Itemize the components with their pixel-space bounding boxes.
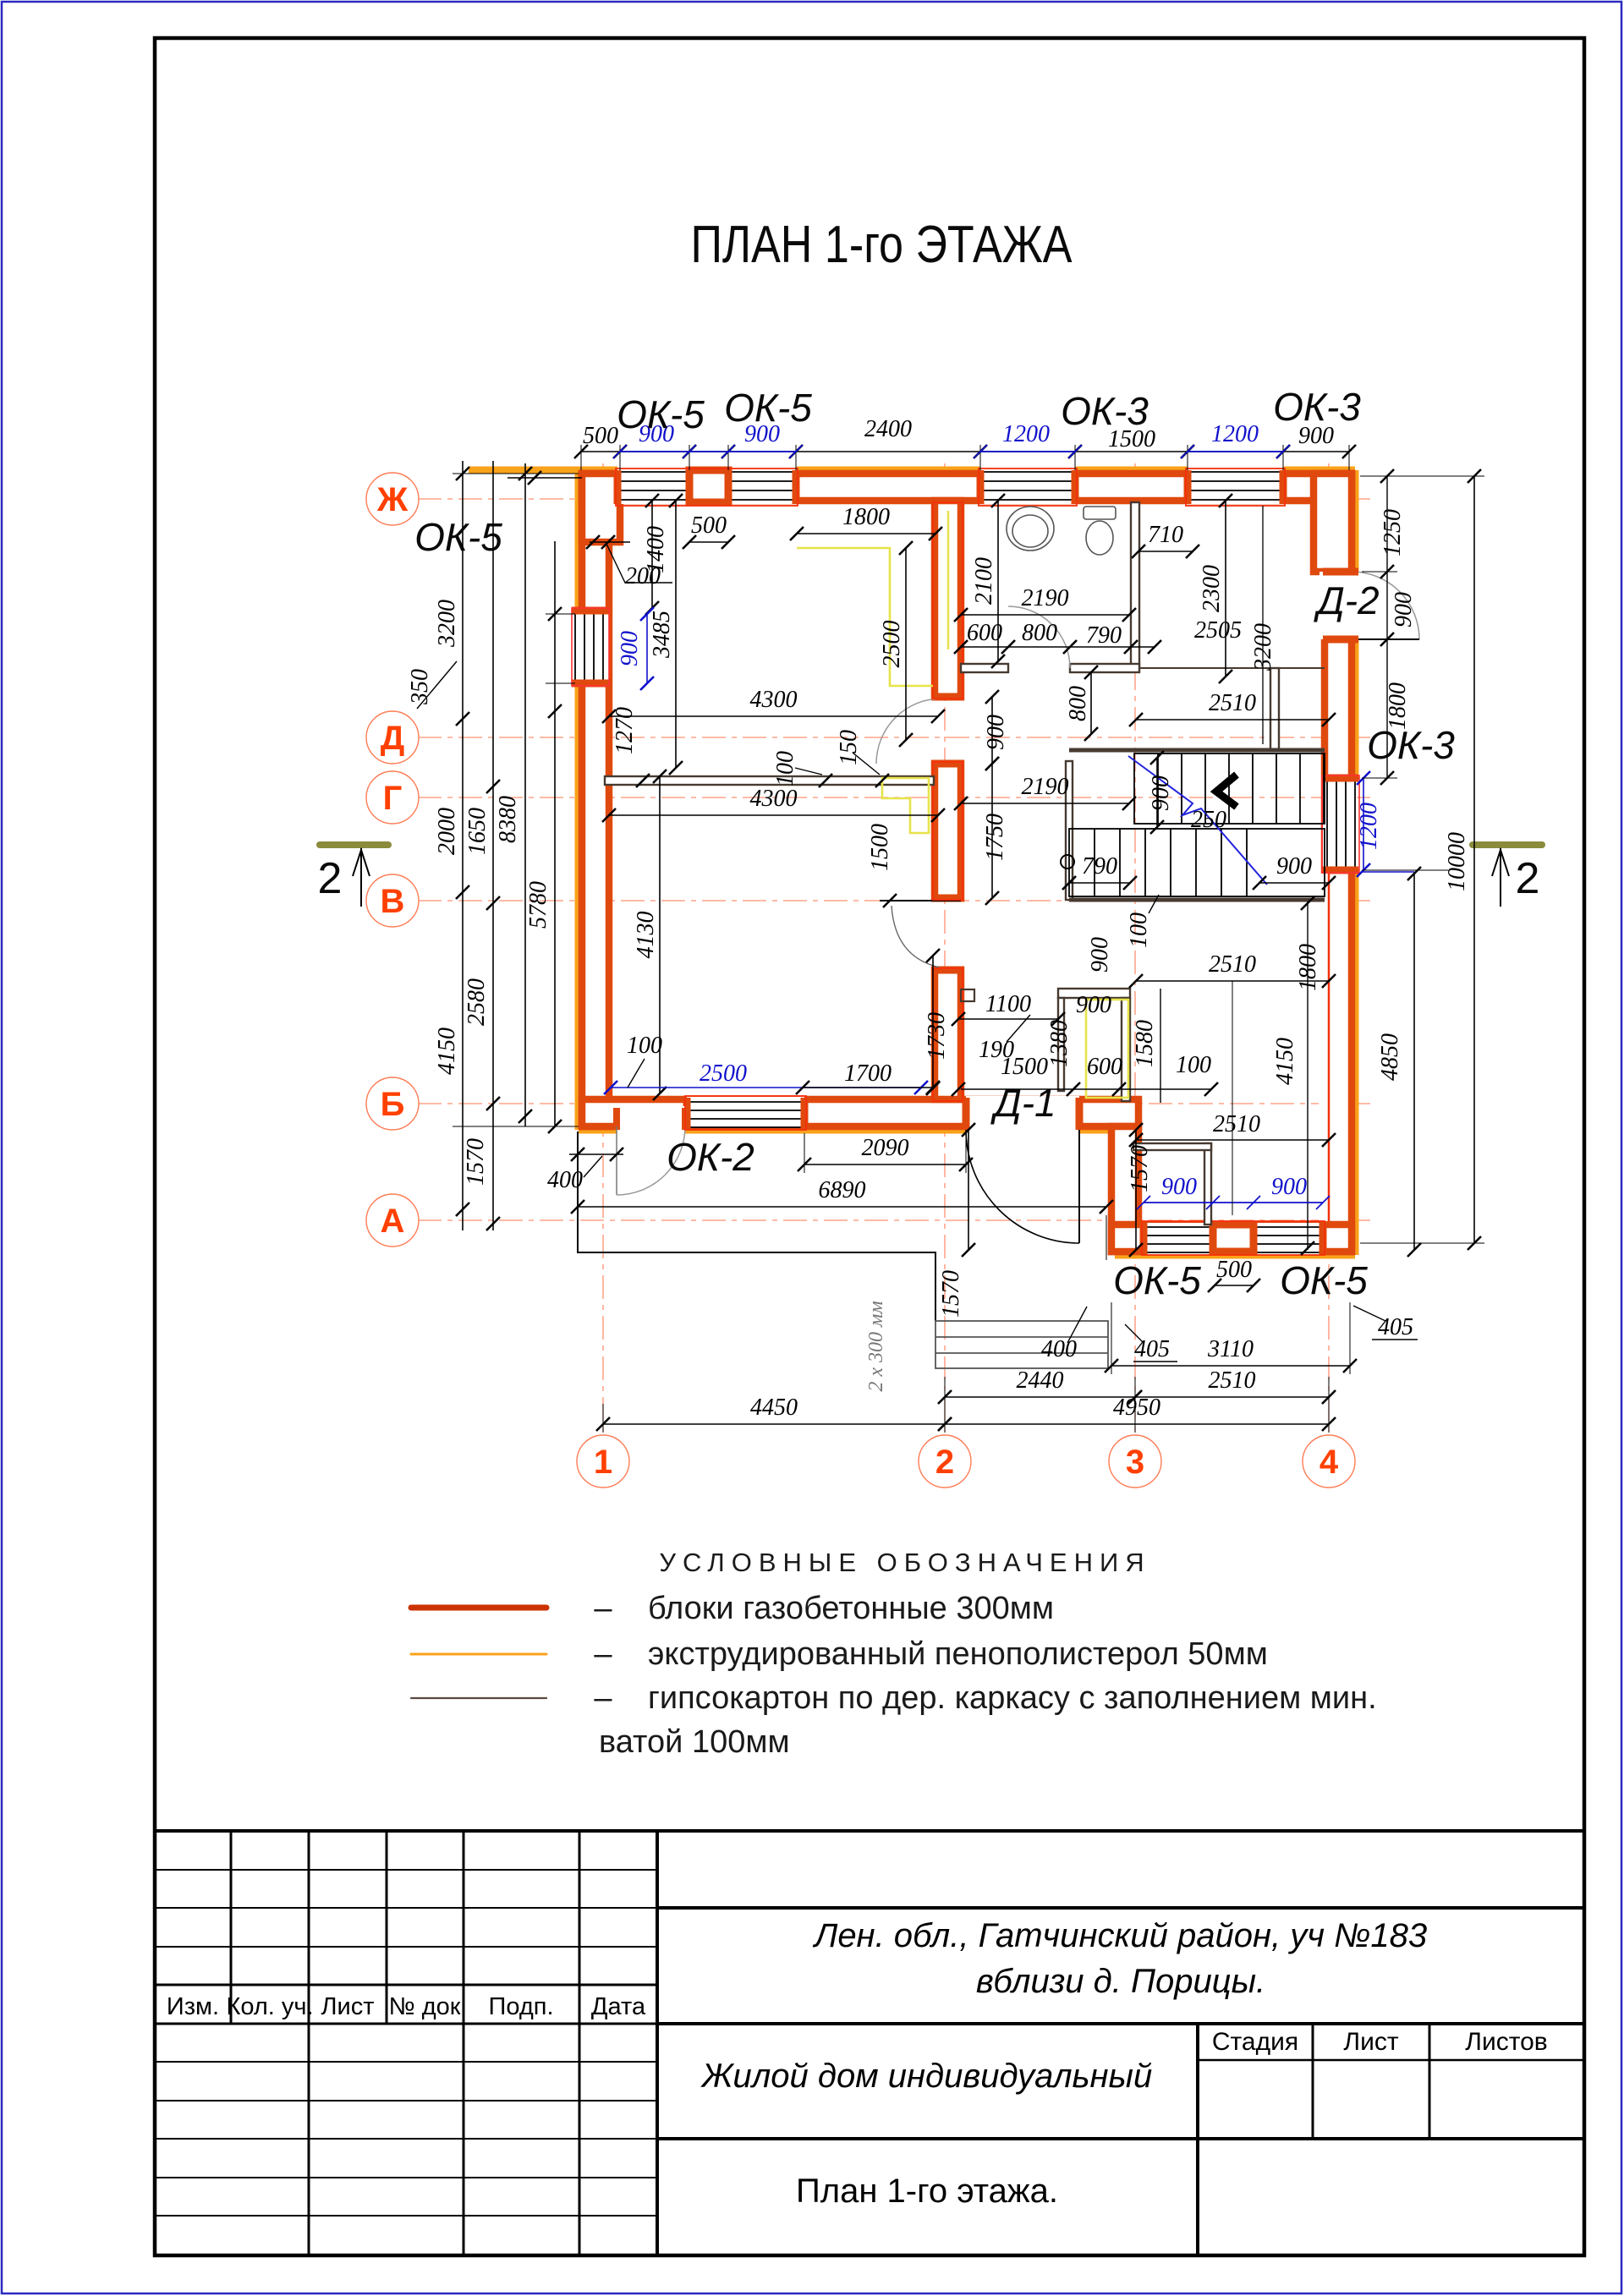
top dimension chain	[581, 451, 1349, 452]
door D-1 opening bottom wall	[966, 1096, 1079, 1135]
partition heater closet right wall	[1122, 998, 1130, 1101]
svg-text:900: 900	[1087, 937, 1113, 973]
svg-text:800: 800	[1022, 620, 1057, 646]
insulation right	[1352, 869, 1359, 1255]
legend line polystyrene	[411, 1653, 546, 1656]
entrance door opening bottom-left	[617, 1106, 685, 1135]
svg-text:–: –	[594, 1591, 612, 1626]
dimension 500	[683, 535, 735, 549]
wall corner pier NW	[582, 474, 620, 542]
svg-text:1800: 1800	[842, 504, 890, 530]
insulation right	[1352, 638, 1359, 780]
dimension 710	[1132, 545, 1199, 558]
stair arrow chevron	[1216, 775, 1237, 807]
svg-text:ОК-2: ОК-2	[667, 1135, 754, 1179]
dimension 790	[1062, 876, 1137, 890]
handrail start marker	[1061, 855, 1074, 869]
axis bubble 2	[919, 1435, 971, 1488]
svg-text:500: 500	[583, 423, 618, 449]
svg-text:блоки газобетонные 300мм: блоки газобетонные 300мм	[648, 1591, 1054, 1626]
wall exterior top (axis Ж)	[582, 474, 1352, 501]
svg-text:2090: 2090	[862, 1135, 909, 1161]
svg-text:2190: 2190	[1022, 585, 1069, 611]
405 leader2	[1353, 1306, 1418, 1340]
lower room door arc	[892, 906, 940, 967]
dimension 1700	[796, 1081, 940, 1094]
svg-text:2510: 2510	[1213, 1111, 1260, 1137]
svg-text:710: 710	[1148, 522, 1183, 548]
wall interior wall lower segment	[935, 970, 961, 1099]
svg-text:500: 500	[1216, 1257, 1252, 1283]
svg-text:В: В	[381, 883, 405, 920]
svg-text:УСЛОВНЫЕ ОБОЗНАЧЕНИЯ: УСЛОВНЫЕ ОБОЗНАЧЕНИЯ	[659, 1548, 1150, 1577]
svg-text:2: 2	[318, 854, 343, 903]
svg-text:4130: 4130	[633, 912, 659, 959]
svg-text:3200: 3200	[434, 600, 460, 648]
svg-text:4850: 4850	[1377, 1033, 1403, 1081]
insulation contour room NW	[797, 548, 933, 686]
400 leader	[584, 1156, 602, 1177]
svg-text:1250: 1250	[1380, 509, 1406, 556]
dimension 2440	[938, 1390, 1142, 1404]
svg-text:–: –	[594, 1636, 612, 1672]
svg-text:1750: 1750	[982, 814, 1008, 861]
axis line Б	[418, 1103, 1370, 1104]
svg-text:План 1-го этажа.: План 1-го этажа.	[796, 2173, 1058, 2210]
svg-text:1200: 1200	[1356, 803, 1382, 850]
svg-text:Д-2: Д-2	[1313, 578, 1379, 622]
window OK-3 top right	[1188, 463, 1283, 504]
svg-text:2300: 2300	[1199, 565, 1225, 612]
landing edge	[1139, 667, 1325, 669]
axis line 1	[602, 463, 604, 1433]
svg-text:1200: 1200	[1002, 421, 1050, 447]
pier between OK-5 windows	[689, 470, 728, 502]
wall exterior left (axis 1)	[582, 474, 609, 1126]
wall exterior bottom step (axis 3)	[1111, 1126, 1138, 1252]
left corner ext line	[507, 477, 582, 479]
axis line Д	[418, 737, 1370, 738]
svg-text:Лист: Лист	[1343, 2028, 1398, 2056]
svg-text:1650: 1650	[464, 808, 491, 855]
partition boiler room wall vertical	[1204, 1143, 1211, 1225]
insulation right	[1352, 470, 1359, 573]
window OK-3 top left	[980, 463, 1075, 504]
dim line 1580	[1160, 989, 1161, 1103]
entrance door arc	[617, 1126, 685, 1195]
svg-text:900: 900	[1276, 853, 1312, 879]
svg-text:2510: 2510	[1209, 951, 1256, 978]
window zone OK-5 top (two windows + pier)	[617, 463, 796, 504]
svg-text:1380: 1380	[1046, 1020, 1073, 1067]
dimension 10000	[1468, 469, 1481, 1250]
svg-text:2500: 2500	[700, 1060, 747, 1087]
svg-text:2400: 2400	[864, 416, 912, 442]
svg-text:500: 500	[691, 512, 727, 539]
top dimension chain extension lines	[581, 445, 1349, 470]
svg-text:ОК-3: ОК-3	[1273, 385, 1361, 429]
svg-text:100: 100	[772, 751, 798, 786]
interior wall door jambs	[931, 697, 964, 970]
svg-text:8380: 8380	[495, 796, 521, 843]
line under stairs to wall	[880, 900, 961, 901]
dimension 2500	[899, 541, 913, 747]
partition stair left wall	[1066, 761, 1073, 900]
svg-text:2190: 2190	[1022, 774, 1069, 800]
svg-text:600: 600	[1087, 1054, 1122, 1080]
svg-text:Стадия: Стадия	[1212, 2028, 1298, 2056]
porch right wall inner face	[1319, 874, 1330, 1221]
dimension 1750	[985, 757, 999, 905]
svg-text:ОК-5: ОК-5	[1113, 1258, 1201, 1302]
section marker 2 right	[1473, 845, 1542, 907]
dimension 2100	[991, 494, 1005, 668]
dimension 900	[640, 607, 654, 690]
window OK-2 bottom wall	[687, 1097, 804, 1127]
svg-text:Дата: Дата	[591, 1993, 646, 2020]
svg-text:1200: 1200	[1211, 421, 1259, 447]
dimension 4450	[596, 1417, 952, 1431]
svg-text:ОК-5: ОК-5	[414, 515, 502, 559]
svg-text:1800: 1800	[1385, 682, 1411, 730]
svg-text:2000: 2000	[434, 808, 460, 855]
axis line Г	[418, 797, 1370, 798]
405 leader	[1125, 1324, 1177, 1362]
400 leader	[1067, 1307, 1087, 1343]
terrace outline	[578, 1132, 935, 1321]
wall corner pier NE	[1314, 474, 1352, 572]
svg-text:405: 405	[1134, 1336, 1170, 1362]
svg-text:4150: 4150	[1272, 1038, 1298, 1085]
dimension 4850	[1407, 867, 1421, 1257]
red outline interior wall segs	[616, 469, 1325, 1255]
svg-text:1570: 1570	[1127, 1145, 1153, 1192]
svg-text:4150: 4150	[434, 1027, 460, 1075]
insulation top	[794, 467, 982, 474]
axis line 4	[1328, 463, 1330, 1433]
dimension 900	[1253, 876, 1336, 890]
svg-text:790: 790	[1086, 622, 1122, 649]
svg-text:1: 1	[594, 1444, 612, 1481]
svg-text:350: 350	[407, 669, 433, 705]
100 leader	[628, 1059, 645, 1088]
svg-text:600: 600	[967, 620, 1002, 646]
4150 dim line	[1307, 901, 1309, 1250]
axis bubble В	[366, 874, 419, 927]
dimension 4300	[602, 710, 945, 723]
partition bathroom right wall	[1131, 502, 1139, 668]
svg-text:Д-1: Д-1	[990, 1081, 1056, 1125]
svg-text:250: 250	[1191, 807, 1226, 833]
stair top boundary	[1069, 748, 1325, 753]
blue window dims top	[613, 445, 1290, 458]
axis line В	[418, 900, 1370, 901]
insulation bottom-left	[1078, 1126, 1115, 1134]
hall door arc	[876, 699, 941, 764]
svg-text:вблизи д. Порицы.: вблизи д. Порицы.	[976, 1963, 1265, 2000]
svg-text:ОК-5: ОК-5	[724, 386, 812, 430]
svg-text:5780: 5780	[525, 881, 551, 929]
wall interior wall upper segment	[935, 501, 961, 697]
svg-text:1570: 1570	[938, 1270, 964, 1318]
wall exterior bottom of porch room	[1111, 1225, 1352, 1252]
dimension 4950	[938, 1417, 1336, 1431]
svg-text:1570: 1570	[463, 1138, 489, 1186]
svg-text:1270: 1270	[612, 707, 638, 754]
svg-text:900: 900	[1391, 592, 1417, 627]
insulation bottom-left	[579, 1126, 618, 1134]
svg-text:2: 2	[935, 1444, 954, 1481]
svg-text:150: 150	[836, 730, 862, 765]
svg-text:1580: 1580	[1132, 1020, 1158, 1067]
svg-text:2510: 2510	[1209, 690, 1256, 716]
dimension 1400	[645, 494, 659, 615]
partition room divider axis Г	[605, 776, 934, 785]
insulation bottom-step	[1111, 1130, 1119, 1255]
dimension 900	[1150, 751, 1164, 834]
svg-text:900: 900	[1161, 1174, 1197, 1200]
svg-text:400: 400	[1041, 1336, 1077, 1362]
dimension 2510	[1128, 1390, 1336, 1404]
stairs upper flight	[1134, 753, 1325, 824]
dimension 1570	[1129, 1123, 1143, 1257]
svg-text:1500: 1500	[867, 824, 893, 871]
windows OK-5 bottom (porch room) + pier	[1144, 1223, 1323, 1255]
dimension 4130	[653, 770, 667, 1100]
partition stair hall wall	[1270, 668, 1279, 750]
insulation top	[1073, 467, 1189, 474]
dim 400 entrance	[569, 1153, 623, 1155]
svg-text:1730: 1730	[924, 1012, 950, 1060]
dimension 2190	[954, 797, 1136, 810]
svg-text:гипсокартон по дер. каркасу с: гипсокартон по дер. каркасу с заполнение…	[648, 1680, 1377, 1716]
svg-text:4300: 4300	[750, 687, 798, 713]
svg-text:Лист: Лист	[321, 1993, 374, 2020]
svg-text:2500: 2500	[879, 621, 905, 668]
extension lines right	[1360, 476, 1484, 1243]
window OK-5 left wall	[570, 611, 609, 683]
svg-text:Б: Б	[381, 1086, 405, 1123]
extension lines bottom	[578, 981, 1350, 1433]
insulation top	[688, 467, 730, 474]
stair direction line	[1128, 756, 1267, 885]
dimension 3485	[669, 494, 683, 775]
svg-text:ПЛАН 1-го ЭТАЖА: ПЛАН 1-го ЭТАЖА	[690, 216, 1073, 274]
insulation left	[575, 470, 583, 612]
axis bubble Б	[366, 1077, 419, 1130]
svg-text:1500: 1500	[1001, 1054, 1048, 1080]
dimension 900	[985, 690, 999, 770]
dim 1500-600-100	[961, 1088, 1211, 1090]
svg-text:10000: 10000	[1444, 832, 1470, 891]
svg-text:№ док: № док	[389, 1993, 461, 2020]
svg-text:900: 900	[617, 631, 643, 666]
100 leader stairs	[1149, 895, 1159, 913]
svg-text:Ж: Ж	[376, 481, 409, 518]
axis bubble Г	[366, 771, 419, 824]
closet corner piece	[961, 989, 974, 1001]
svg-text:2510: 2510	[1209, 1367, 1256, 1394]
partition bathroom bottom left stub	[961, 664, 1008, 672]
svg-text:800: 800	[1065, 686, 1091, 721]
svg-text:2505: 2505	[1194, 617, 1242, 644]
svg-text:Листов: Листов	[1465, 2028, 1547, 2056]
350 leader	[417, 661, 457, 709]
insulation top	[469, 467, 620, 474]
entrance door leaf	[616, 1126, 617, 1195]
legend line gas blocks	[411, 1605, 546, 1611]
svg-text:3: 3	[1126, 1444, 1144, 1481]
svg-text:100: 100	[627, 1033, 662, 1059]
svg-text:900: 900	[1271, 1174, 1307, 1200]
yellow hook symbol	[882, 778, 929, 833]
svg-text:4: 4	[1319, 1444, 1339, 1481]
insulation bottom-left	[680, 1126, 968, 1134]
blue dims bottom windows	[1137, 1196, 1330, 1209]
insulation left	[575, 682, 583, 1130]
dimension 2190	[954, 608, 1136, 622]
svg-text:100: 100	[1126, 912, 1152, 948]
dimension 6890	[571, 1200, 1113, 1214]
svg-text:2440: 2440	[1017, 1367, 1064, 1394]
legend line gypsum	[411, 1697, 546, 1699]
axis bubble Д	[366, 711, 419, 764]
stair bottom boundary	[1069, 898, 1325, 902]
title block	[155, 1831, 1584, 2255]
dimension 2300	[1219, 494, 1232, 683]
svg-text:900: 900	[1076, 992, 1111, 1018]
dimension 1800	[790, 527, 942, 540]
svg-text:3110: 3110	[1207, 1336, 1254, 1362]
axis line А	[418, 1219, 1370, 1221]
svg-text:Изм.: Изм.	[167, 1993, 219, 2020]
partition boiler room wall horizontal	[1133, 1143, 1211, 1150]
door D-1 leaf+arc	[966, 1130, 1079, 1243]
extension lines left	[453, 474, 579, 1126]
wall interior wall middle segment	[935, 764, 961, 898]
dimension 2510	[1129, 713, 1336, 726]
porch steps 2x300	[935, 1321, 1108, 1368]
svg-text:экструдированный пенополистеро: экструдированный пенополистерол 50мм	[648, 1636, 1268, 1672]
svg-text:1100: 1100	[985, 991, 1031, 1017]
dimension 4300	[602, 808, 945, 822]
dimension 2090	[798, 1158, 973, 1171]
svg-text:Лен. обл., Гатчинский район, у: Лен. обл., Гатчинский район, уч №183	[812, 1917, 1427, 1954]
svg-text:ОК-3: ОК-3	[1367, 723, 1455, 767]
svg-text:2: 2	[1516, 854, 1540, 903]
svg-text:–: –	[594, 1680, 612, 1716]
svg-text:Жилой дом индивидуальный: Жилой дом индивидуальный	[700, 2058, 1152, 2095]
svg-text:4300: 4300	[750, 786, 798, 812]
window OK-3 right wall	[1323, 778, 1357, 870]
svg-text:900: 900	[983, 715, 1009, 750]
svg-text:405: 405	[1378, 1314, 1413, 1340]
axis bubble 4	[1303, 1435, 1355, 1488]
dimension 2510	[1129, 974, 1336, 988]
svg-text:900: 900	[1148, 775, 1174, 811]
axis bubble А	[366, 1194, 419, 1247]
svg-text:200: 200	[625, 563, 661, 589]
svg-text:790: 790	[1082, 853, 1117, 879]
axis line 3	[1134, 463, 1136, 1433]
dim 600-800-790	[961, 646, 1155, 648]
svg-text:Д: Д	[381, 720, 405, 757]
svg-text:А: А	[381, 1203, 405, 1240]
sink	[1007, 507, 1054, 551]
left chains verticals	[463, 461, 555, 1230]
dimension 1570	[962, 1123, 975, 1257]
blue ext	[1362, 871, 1414, 873]
svg-text:4950: 4950	[1113, 1395, 1160, 1421]
svg-text:Подп.: Подп.	[488, 1993, 553, 2020]
section marker 2 left	[318, 845, 388, 907]
wall exterior right (axis 4)	[1325, 474, 1352, 1252]
svg-text:2580: 2580	[464, 978, 490, 1026]
stairs lower flight	[1069, 829, 1325, 896]
svg-text:4450: 4450	[750, 1395, 798, 1421]
svg-text:ватой 100мм: ватой 100мм	[599, 1724, 790, 1760]
dimension 500	[1208, 1279, 1260, 1292]
200 leader	[606, 542, 672, 583]
partition bathroom bottom right part	[1070, 664, 1139, 672]
axis bubble 1	[577, 1435, 629, 1488]
dimension 2500 blue	[604, 1081, 928, 1094]
right chain small	[1386, 476, 1388, 778]
partition heater closet left wall	[1058, 998, 1064, 1091]
insulation top	[1281, 467, 1355, 474]
svg-text:Г: Г	[383, 780, 403, 817]
svg-text:6890: 6890	[819, 1177, 866, 1203]
svg-text:2 x 300 мм: 2 x 300 мм	[865, 1301, 887, 1391]
door D-2 opening right wall	[1319, 572, 1360, 639]
axis line 2	[944, 463, 946, 1433]
toilet	[1084, 507, 1116, 555]
svg-text:100: 100	[1176, 1052, 1211, 1078]
dimension 1730	[926, 949, 940, 1095]
wall exterior bottom (axis Б)	[582, 1099, 1138, 1126]
svg-text:ОК-5: ОК-5	[1280, 1258, 1368, 1302]
svg-text:1700: 1700	[844, 1060, 892, 1087]
dimension 1100	[952, 1012, 1065, 1026]
svg-text:2100: 2100	[971, 557, 997, 605]
dimension 2510	[1129, 1133, 1336, 1147]
dimension 1200 blue right	[1357, 771, 1370, 877]
dimension 3110	[1105, 1359, 1357, 1373]
190 leader	[1007, 1015, 1030, 1042]
door D-2 leaf+arc	[1352, 572, 1419, 639]
svg-text:Кол. уч.: Кол. уч.	[226, 1993, 313, 2020]
svg-text:ОК-3: ОК-3	[1061, 389, 1149, 433]
dimension 800	[1084, 666, 1098, 741]
svg-text:ОК-5: ОК-5	[617, 392, 705, 436]
axis line Ж	[418, 498, 1370, 500]
svg-text:3485: 3485	[649, 611, 675, 659]
partition heater closet top wall	[1058, 989, 1130, 998]
axis bubble Ж	[366, 473, 419, 525]
water heater riser	[1086, 1000, 1128, 1098]
axis bubble 3	[1109, 1435, 1161, 1488]
insulation bottom-right	[1115, 1252, 1355, 1259]
insulation contour bathroom	[947, 511, 950, 649]
leaders 150/100	[795, 753, 880, 775]
bathroom door arc	[1008, 606, 1070, 668]
